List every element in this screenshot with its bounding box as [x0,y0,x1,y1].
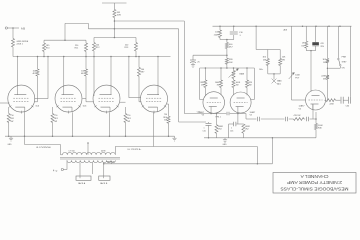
svg-text:RK1: RK1 [10,118,14,120]
svg-text:GND: GND [8,144,13,146]
svg-text:GND: GND [223,144,228,146]
svg-text:PWR: PWR [342,56,347,58]
svg-text:CT 550: CT 550 [69,151,75,153]
svg-text:750: 750 [164,114,167,116]
svg-text:750: 750 [127,115,130,117]
svg-text:100K: 100K [318,125,323,127]
svg-text:447B: 447B [101,151,106,153]
svg-text:C16: C16 [230,131,233,133]
svg-text:750: 750 [54,115,57,117]
svg-text:12AX7: 12AX7 [299,105,306,108]
svg-text:MESA/BOOGIE SIMUL-CLASS: MESA/BOOGIE SIMUL-CLASS [280,186,348,191]
svg-text:RK1: RK1 [54,118,58,120]
svg-text:5W: 5W [10,121,13,123]
svg-text:680R: 680R [218,126,223,128]
svg-text:GRID DRIVE: GRID DRIVE [17,41,29,43]
svg-text:RK1: RK1 [127,118,131,120]
svg-text:1W: 1W [217,85,220,87]
svg-text:2W: 2W [282,59,285,61]
svg-text:A B: A B [21,27,25,30]
svg-text:CHANNEL A: CHANNEL A [300,174,328,179]
svg-text:RK4: RK4 [163,117,167,119]
svg-text:100K: 100K [236,82,241,84]
svg-text:1: 1 [231,128,232,130]
svg-text:2:NINETY POWER AMP: 2:NINETY POWER AMP [287,180,342,185]
svg-text:5W: 5W [127,121,130,123]
svg-text:UL 175/325/500: UL 175/325/500 [36,147,52,149]
svg-text:1: 1 [204,128,205,130]
svg-text:UL 175/375 B+: UL 175/375 B+ [128,149,143,151]
svg-text:2W: 2W [263,59,266,61]
svg-text:V3: V3 [202,115,204,117]
svg-text:220K 1: 220K 1 [17,44,24,46]
svg-text:C30: C30 [346,105,349,107]
svg-text:220K: 220K [330,104,335,106]
svg-text:2K2: 2K2 [218,129,221,131]
svg-text:1W: 1W [201,85,204,87]
svg-text:220R: 220R [214,34,219,36]
svg-text:STBY: STBY [342,62,348,64]
svg-text:12AX7: 12AX7 [250,111,256,114]
svg-text:A.B: A.B [284,28,288,31]
svg-text:JACK A: JACK A [78,182,86,185]
svg-text:V4: V4 [250,115,252,117]
svg-text:750: 750 [10,115,13,117]
svg-text:ADJ: ADJ [277,82,281,85]
svg-text:100K: 100K [295,75,300,77]
svg-text:1W: 1W [249,85,252,87]
svg-text:470 1W: 470 1W [294,115,301,117]
svg-text:1W: 1W [301,45,304,47]
svg-text:C14: C14 [197,111,200,113]
svg-text:1W: 1W [323,62,326,64]
svg-text:NFB 47R: NFB 47R [107,161,115,163]
svg-text:10W: 10W [117,14,121,16]
svg-text:C15: C15 [203,131,206,133]
svg-text:JACK B: JACK B [100,182,108,185]
svg-text:680R: 680R [245,126,250,128]
svg-text:100K: 100K [215,82,220,84]
svg-text:5W: 5W [323,78,326,80]
svg-text:2K2: 2K2 [245,129,248,131]
svg-text:220R: 220R [321,76,326,78]
svg-text:BIAS: BIAS [240,73,245,76]
svg-text:BIAS: BIAS [277,80,282,83]
svg-text:5W: 5W [164,120,167,122]
svg-text:1W: 1W [236,85,239,87]
svg-text:5W: 5W [54,121,57,123]
